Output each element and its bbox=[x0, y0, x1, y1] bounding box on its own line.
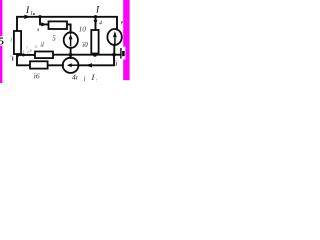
svg-text:ıı: ıı bbox=[21, 49, 25, 55]
svg-text:5: 5 bbox=[52, 35, 56, 43]
svg-text:ï0: ï0 bbox=[82, 41, 88, 49]
svg-text:1: 1 bbox=[30, 11, 33, 17]
svg-text:ï6: ï6 bbox=[34, 72, 40, 81]
svg-text:i: i bbox=[84, 75, 86, 83]
svg-text:4: 4 bbox=[99, 19, 102, 26]
svg-text:4ı: 4ı bbox=[72, 73, 78, 82]
svg-text:5: 5 bbox=[0, 37, 4, 48]
svg-text:10: 10 bbox=[79, 25, 87, 34]
svg-text:г: г bbox=[30, 49, 32, 54]
svg-text:i: i bbox=[10, 37, 12, 44]
svg-text:ü: ü bbox=[114, 59, 118, 67]
svg-text:ıı: ıı bbox=[35, 44, 39, 50]
